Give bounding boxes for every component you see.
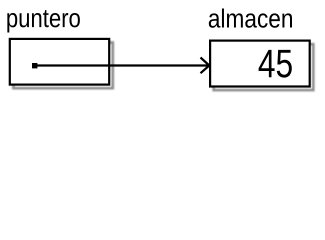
arrowhead <box>201 58 210 74</box>
shadow of pointer box <box>13 43 112 89</box>
shadow of storage box <box>214 44 314 90</box>
storage box <box>210 41 310 87</box>
value 45 <box>259 50 292 78</box>
label puntero <box>7 10 80 32</box>
pointer box <box>10 39 109 85</box>
label almacen <box>209 9 292 28</box>
arrow wire <box>35 64 209 66</box>
pointer dot <box>32 63 37 68</box>
